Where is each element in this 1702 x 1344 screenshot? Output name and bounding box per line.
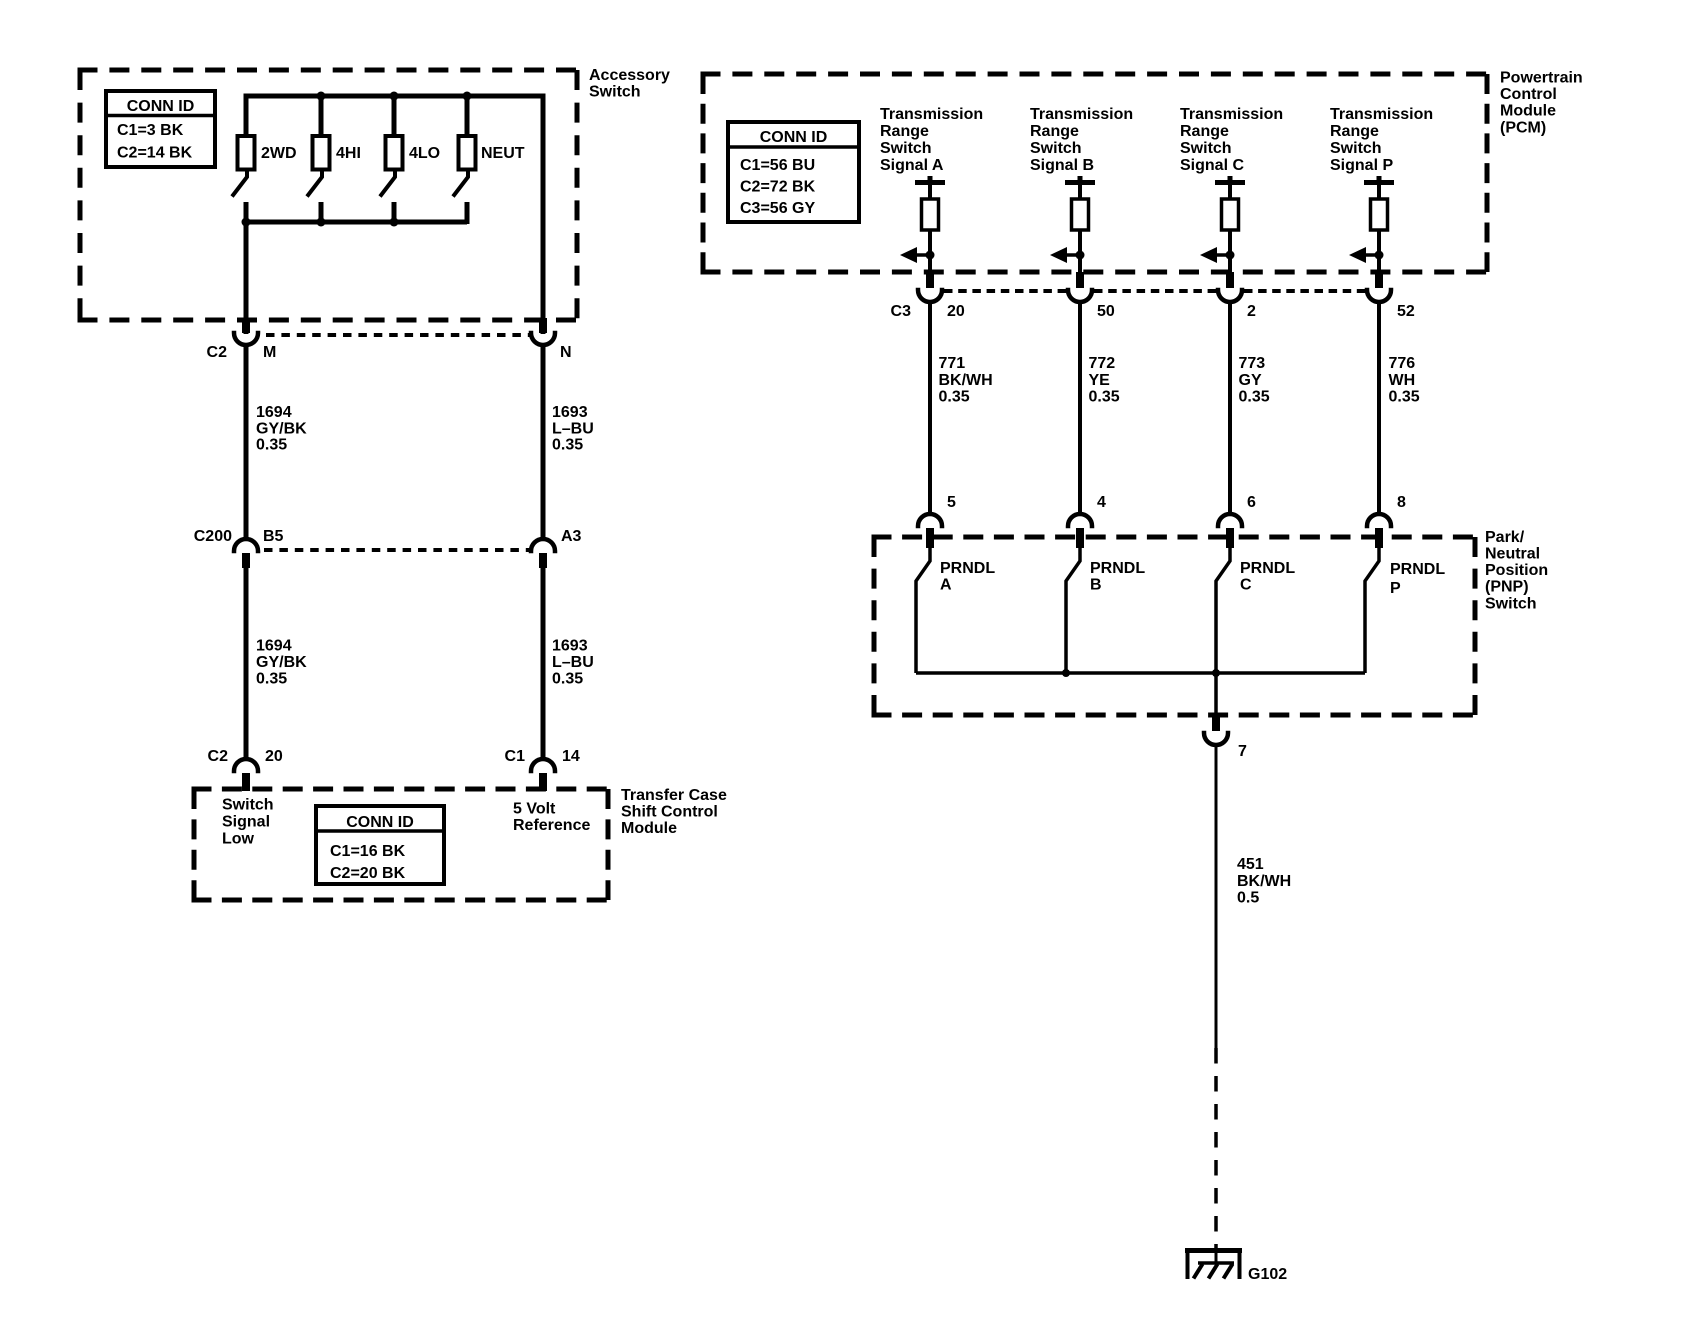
label: 1693 L-BU 0.35 (lower) [552,638,594,688]
switch blade 4LO [380,170,395,197]
switch blade 4HI [307,170,322,197]
connector C2 pin 20 [234,759,258,791]
svg-text:0.5: 0.5 [1237,890,1259,907]
svg-text:CONN ID: CONN ID [346,814,414,831]
label: Transmission Range Switch Signal A [880,106,983,174]
svg-text:Range: Range [880,123,929,140]
node: bottom bus junction left [242,218,251,227]
signal tap arrow (Signal B) [1050,247,1085,263]
connector C200 pin B5 [234,539,258,568]
svg-text:Neutral: Neutral [1485,546,1540,563]
svg-text:PRNDL: PRNDL [940,560,995,577]
PCM internal source bar (Signal C) [1215,176,1245,183]
svg-text:Position: Position [1485,562,1548,579]
svg-text:20: 20 [265,748,283,765]
svg-text:CONN ID: CONN ID [127,98,195,115]
svg-text:(PNP): (PNP) [1485,579,1529,596]
svg-text:NEUT: NEUT [481,145,525,162]
wire: left drop to connector C2 pin M [244,222,249,334]
wire: Signal B resistor to pin [1078,230,1082,274]
label: Transfer Case Shift Control Module [621,787,727,837]
wire: Signal A bar to resistor [928,182,932,199]
resistor (PCM Signal C pull-up) [1222,199,1239,230]
svg-text:C200: C200 [194,528,232,545]
svg-text:4LO: 4LO [409,145,440,162]
signal tap arrow (Signal P) [1349,247,1384,263]
label: Accessory Switch [589,67,670,100]
label: Transmission Range Switch Signal P [1330,106,1433,174]
svg-text:0.35: 0.35 [1089,388,1120,405]
svg-text:773: 773 [1239,355,1266,372]
Powertrain Control Module (PCM) box [701,72,1490,77]
svg-text:6: 6 [1247,494,1256,511]
svg-text:451: 451 [1237,856,1264,873]
svg-text:Switch: Switch [222,797,274,814]
connector PNP pin 6 [1218,514,1242,548]
svg-text:776: 776 [1389,355,1416,372]
svg-text:B: B [1090,577,1102,594]
wire 771 BK/WH [928,302,932,514]
svg-text:1693: 1693 [552,638,588,655]
svg-text:BK/WH: BK/WH [939,372,993,389]
wire 1693 L-BU upper segment [541,345,546,539]
wire 1694 GY/BK lower segment [244,568,249,759]
label: PRNDL B [1090,560,1145,593]
connector line C2/M to N (dotted) [266,333,530,337]
resistor (PCM Signal B pull-up) [1072,199,1089,230]
svg-text:52: 52 [1397,303,1415,320]
svg-text:Module: Module [621,820,677,837]
svg-text:772: 772 [1089,355,1116,372]
svg-text:1693: 1693 [552,404,588,421]
svg-text:C2: C2 [208,748,229,765]
connector line C200 B5 to A3 (dotted) [264,548,530,552]
svg-text:50: 50 [1097,303,1115,320]
connector C3 pin 52 [1367,272,1391,302]
wire 773 GY [1228,302,1232,514]
node: bottom bus junction 4LO [390,218,399,227]
svg-text:2: 2 [1247,303,1256,320]
label: Transmission Range Switch Signal B [1030,106,1133,174]
wire: PNP common bus [916,671,1365,675]
svg-text:GY/BK: GY/BK [256,654,307,671]
resistor 4HI [313,136,330,170]
svg-text:(PCM): (PCM) [1500,119,1546,136]
svg-text:P: P [1390,580,1401,597]
ground G102 [1185,1244,1242,1279]
wire: NEUT fixed contact stub [465,202,470,224]
svg-text:PRNDL: PRNDL [1090,560,1145,577]
svg-text:C2=72 BK: C2=72 BK [740,179,816,196]
wire 1693 L-BU lower segment [541,568,546,759]
svg-text:G102: G102 [1248,1266,1287,1283]
svg-text:Range: Range [1030,123,1079,140]
svg-text:Transfer Case: Transfer Case [621,787,727,804]
wire: Signal A resistor to pin [928,230,932,274]
wire 1694 GY/BK upper segment [244,345,249,539]
wire: Signal C bar to resistor [1228,182,1232,199]
svg-text:C3: C3 [891,303,912,320]
svg-text:Transmission: Transmission [1330,106,1433,123]
wire: Signal P bar to resistor [1377,182,1381,199]
signal tap arrow (Signal A) [900,247,935,263]
resistor NEUT [459,136,476,170]
switch PRNDL C [1216,548,1230,673]
PCM internal source bar (Signal B) [1065,176,1095,183]
connector PNP pin 8 [1367,514,1391,548]
resistor 4LO [386,136,403,170]
connector PNP pin 7 [1204,714,1228,745]
switch PRNDL P [1365,548,1379,673]
label: 451 BK/WH 0.5 [1237,856,1291,907]
wire: NEUT branch drop [465,96,470,136]
resistor (PCM Signal P pull-up) [1371,199,1388,230]
wire: PNP bus to pin 7 [1214,673,1218,716]
svg-text:C: C [1240,577,1252,594]
svg-text:CONN ID: CONN ID [760,129,828,146]
resistor 2WD [238,136,255,170]
node: top bus junction at NEUT [463,92,472,101]
wire 451 BK/WH (dashed run to ground) [1214,1048,1218,1248]
node: bottom bus junction 4HI [317,218,326,227]
wire: bottom bus of accessory switch [244,220,467,225]
node: top bus junction at 4LO [390,92,399,101]
connector C200 pin A3 [531,539,555,568]
svg-text:Switch: Switch [1180,140,1232,157]
svg-text:5 Volt: 5 Volt [513,801,556,818]
svg-text:0.35: 0.35 [256,670,287,687]
label: 771 BK/WH 0.35 [939,355,993,405]
switch blade NEUT [453,170,468,197]
CONN ID table (PCM) [728,122,859,222]
svg-text:5: 5 [947,494,956,511]
svg-text:WH: WH [1389,372,1416,389]
connector PNP pin 4 [1068,514,1092,548]
signal tap arrow (Signal C) [1200,247,1235,263]
svg-text:C2: C2 [207,344,228,361]
svg-text:PRNDL: PRNDL [1390,561,1445,578]
svg-text:Powertrain: Powertrain [1500,70,1583,87]
svg-text:Low: Low [222,831,255,848]
resistor (PCM Signal A pull-up) [922,199,939,230]
wire: 4LO fixed contact stub [392,202,397,224]
svg-text:Switch: Switch [1330,140,1382,157]
label: Switch Signal Low [222,797,274,848]
switch PRNDL B [1066,548,1080,673]
svg-text:Module: Module [1500,103,1556,120]
switch blade 2WD [232,170,247,197]
label: PRNDL A [940,560,995,593]
svg-text:C1=56 BU: C1=56 BU [740,157,815,174]
connector C1 pin 14 [531,759,555,791]
svg-text:4HI: 4HI [336,145,361,162]
svg-text:BK/WH: BK/WH [1237,873,1291,890]
svg-text:771: 771 [939,355,966,372]
svg-text:Transmission: Transmission [1030,106,1133,123]
wire: 4LO branch drop [392,96,397,136]
node: top bus junction at 4HI [317,92,326,101]
PCM internal source bar (Signal A) [915,176,945,183]
PCM internal source bar (Signal P) [1364,176,1394,183]
label: PRNDL P [1390,561,1445,597]
Park/Neutral Position (PNP) Switch box [872,535,1478,540]
svg-text:Signal P: Signal P [1330,157,1393,174]
CONN ID table (Accessory Switch) [106,91,215,167]
svg-text:B5: B5 [263,528,284,545]
svg-text:M: M [263,344,276,361]
CONN ID table (Transfer Case) [316,806,444,884]
label: 1694 GY/BK 0.35 (lower) [256,638,307,688]
connector C3 pin 20 [918,272,942,302]
svg-text:0.35: 0.35 [1239,388,1270,405]
label: 5 Volt Reference [513,801,590,835]
label: 1694 GY/BK 0.35 (upper) [256,404,307,454]
svg-text:Switch: Switch [589,83,641,100]
connector pin N [531,318,555,345]
Transfer Case Shift Control Module box [192,787,611,792]
label: 776 WH 0.35 [1389,355,1420,405]
svg-text:Control: Control [1500,86,1557,103]
svg-text:1694: 1694 [256,404,292,421]
wire 776 WH [1377,302,1381,514]
svg-text:N: N [560,344,572,361]
svg-text:4: 4 [1097,494,1106,511]
svg-text:L–BU: L–BU [552,654,594,671]
connector PNP pin 5 [918,514,942,548]
connector C3 pin 50 [1068,272,1092,302]
svg-text:14: 14 [562,748,580,765]
label: PRNDL C [1240,560,1295,593]
svg-text:Signal A: Signal A [880,157,944,174]
svg-text:L–BU: L–BU [552,420,594,437]
svg-text:C1: C1 [505,748,526,765]
wire: Signal C resistor to pin [1228,230,1232,274]
svg-text:Range: Range [1180,123,1229,140]
label: 1693 L-BU 0.35 (upper) [552,404,594,454]
svg-text:C2=20 BK: C2=20 BK [330,865,406,882]
svg-text:Range: Range [1330,123,1379,140]
label: Powertrain Control Module (PCM) [1500,70,1583,137]
svg-text:0.35: 0.35 [1389,388,1420,405]
wire: 4HI fixed contact stub [319,202,324,224]
svg-text:Accessory: Accessory [589,67,670,84]
svg-text:Park/: Park/ [1485,529,1525,546]
svg-text:Reference: Reference [513,817,590,834]
svg-text:C1=3 BK: C1=3 BK [117,122,184,139]
svg-text:Switch: Switch [1030,140,1082,157]
svg-text:Transmission: Transmission [1180,106,1283,123]
wire: Signal P resistor to pin [1377,230,1381,274]
svg-text:C2=14 BK: C2=14 BK [117,145,193,162]
wire: 2WD fixed contact stub [244,202,249,224]
svg-text:0.35: 0.35 [256,437,287,454]
Accessory Switch module box [78,68,580,73]
connector C3 pin 2 [1218,272,1242,302]
svg-text:C3=56 GY: C3=56 GY [740,200,815,217]
node: PNP bus junction C [1212,669,1220,677]
switch PRNDL A [916,548,930,673]
connector C2 pin M [234,318,258,345]
svg-text:YE: YE [1089,372,1111,389]
svg-text:Switch: Switch [1485,595,1537,612]
label: Park/Neutral Position (PNP) Switch [1485,529,1548,612]
svg-text:A: A [940,577,952,594]
svg-text:1694: 1694 [256,638,292,655]
svg-text:Signal: Signal [222,814,270,831]
svg-text:Signal B: Signal B [1030,157,1094,174]
svg-text:2WD: 2WD [261,145,297,162]
wire: 4HI branch drop [319,96,324,136]
svg-text:Switch: Switch [880,140,932,157]
wire: top bus of accessory switch [246,96,543,334]
label: 772 YE 0.35 [1089,355,1120,405]
wire 451 BK/WH (solid) [1215,745,1218,1048]
svg-text:A3: A3 [561,528,582,545]
wire 772 YE [1078,302,1082,514]
svg-text:Transmission: Transmission [880,106,983,123]
svg-text:0.35: 0.35 [552,437,583,454]
svg-text:20: 20 [947,303,965,320]
connector line C3 (dotted) [944,289,1365,293]
node: PNP bus junction B [1062,669,1070,677]
wire: Signal B bar to resistor [1078,182,1082,199]
svg-text:Shift Control: Shift Control [621,804,718,821]
svg-text:Signal C: Signal C [1180,157,1244,174]
label: Transmission Range Switch Signal C [1180,106,1283,174]
svg-text:PRNDL: PRNDL [1240,560,1295,577]
svg-text:7: 7 [1238,743,1247,760]
label: 773 GY 0.35 [1239,355,1270,405]
svg-text:0.35: 0.35 [939,388,970,405]
svg-text:0.35: 0.35 [552,670,583,687]
svg-text:GY: GY [1239,372,1262,389]
svg-text:8: 8 [1397,494,1406,511]
svg-text:C1=16 BK: C1=16 BK [330,843,406,860]
svg-text:GY/BK: GY/BK [256,420,307,437]
